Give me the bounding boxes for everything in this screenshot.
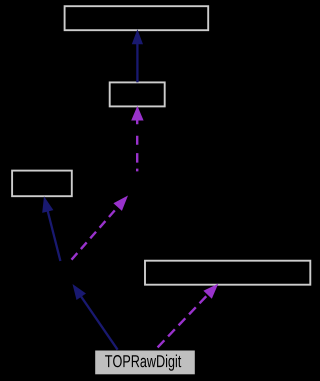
usage arrow P2 dashed shaft (junction up-right) xyxy=(72,207,119,260)
usage arrow P1 dashed shaft xyxy=(136,121,138,172)
node TOPRawDigit label xyxy=(105,355,181,371)
inheritance arrow E1 head xyxy=(132,29,143,44)
class box middle (RelationsInterface) xyxy=(110,82,165,106)
node TOPRawDigit box xyxy=(95,351,195,375)
inheritance arrow E1 shaft (middle box to top box) xyxy=(136,43,138,82)
class box right xyxy=(145,261,310,285)
inheritance arrow E3 shaft (TOPRawDigit to junction) xyxy=(81,296,118,349)
inheritance arrow E2 shaft (junction to left box) xyxy=(48,211,61,261)
usage arrow P2 head xyxy=(113,196,128,211)
usage arrow P1 head (into middle box) xyxy=(131,106,143,121)
class box left xyxy=(12,171,72,197)
inheritance arrow E3 head xyxy=(73,284,87,300)
usage arrow P3 dashed shaft (TOPRawDigit to right box) xyxy=(158,295,208,348)
usage arrow P3 head xyxy=(203,284,218,299)
class box top (TObject) xyxy=(65,6,209,30)
inheritance arrow E2 head xyxy=(42,196,53,213)
